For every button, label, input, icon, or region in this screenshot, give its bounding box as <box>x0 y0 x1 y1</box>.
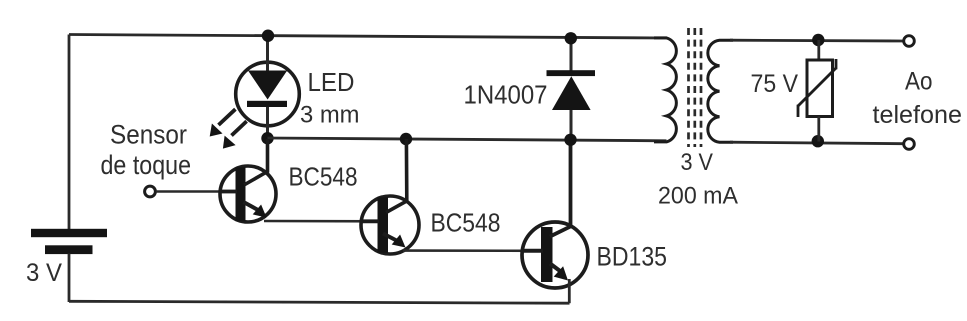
terminal telephone bottom <box>904 139 915 150</box>
svg-text:BC548: BC548 <box>431 208 501 238</box>
junction LED anode on top rail <box>262 30 274 42</box>
svg-text:LED: LED <box>308 67 355 97</box>
wire secondary top to telephone terminal <box>730 39 903 43</box>
LED D1 <box>236 36 300 139</box>
junction diode cathode on top rail <box>565 32 577 44</box>
LED light emission arrow lower <box>223 121 247 148</box>
transformer T1 secondary winding <box>708 40 733 142</box>
terminal telephone top <box>904 36 915 47</box>
junction LED cathode on middle rail <box>261 132 273 144</box>
svg-text:telefone: telefone <box>873 101 963 129</box>
wire Q3 emitter to bottom rail <box>568 279 571 303</box>
svg-text:Sensor: Sensor <box>110 120 187 150</box>
wire sensor to Q1 base bar <box>156 190 237 193</box>
transistor Q2 BC548 <box>361 139 419 254</box>
svg-text:BD135: BD135 <box>597 242 668 272</box>
svg-text:200 mA: 200 mA <box>658 183 738 210</box>
svg-text:BC548: BC548 <box>289 162 358 192</box>
transistor Q1 BC548 <box>220 139 276 222</box>
wire Q1 emitter to Q2 base bar <box>264 220 379 223</box>
svg-text:1N4007: 1N4007 <box>464 80 548 110</box>
junction Q2 collector on middle rail <box>400 133 412 145</box>
wire top rail <box>69 35 667 39</box>
junction varistor top <box>812 34 824 46</box>
wire left vertical from top rail to battery <box>68 35 71 230</box>
junction varistor bottom <box>812 135 824 147</box>
junction diode anode on middle rail <box>564 134 576 146</box>
svg-text:Ao: Ao <box>905 68 933 96</box>
wire secondary bottom to telephone terminal <box>730 142 903 144</box>
transformer T1 primary winding <box>654 38 676 142</box>
battery B1 positive plate <box>31 229 107 237</box>
svg-text:de toque: de toque <box>101 150 192 180</box>
wire bottom rail <box>69 301 570 303</box>
svg-text:3 mm: 3 mm <box>300 102 360 129</box>
svg-text:75 V: 75 V <box>751 70 799 98</box>
transistor Q3 BD135 <box>522 140 588 288</box>
svg-text:3 V: 3 V <box>681 149 714 176</box>
varistor R1 75 V <box>798 40 836 142</box>
terminal sensor input <box>145 186 156 197</box>
wire battery negative to bottom rail <box>68 254 71 303</box>
diode D2 1N4007 <box>547 38 596 140</box>
wire middle rail <box>268 138 667 141</box>
battery B1 negative plate <box>45 245 93 254</box>
transformer T1 core dashed lines <box>689 28 702 147</box>
svg-text:3 V: 3 V <box>26 259 62 287</box>
LED light emission arrow upper <box>210 109 236 136</box>
wire Q2 emitter to Q3 base bar <box>403 249 543 252</box>
